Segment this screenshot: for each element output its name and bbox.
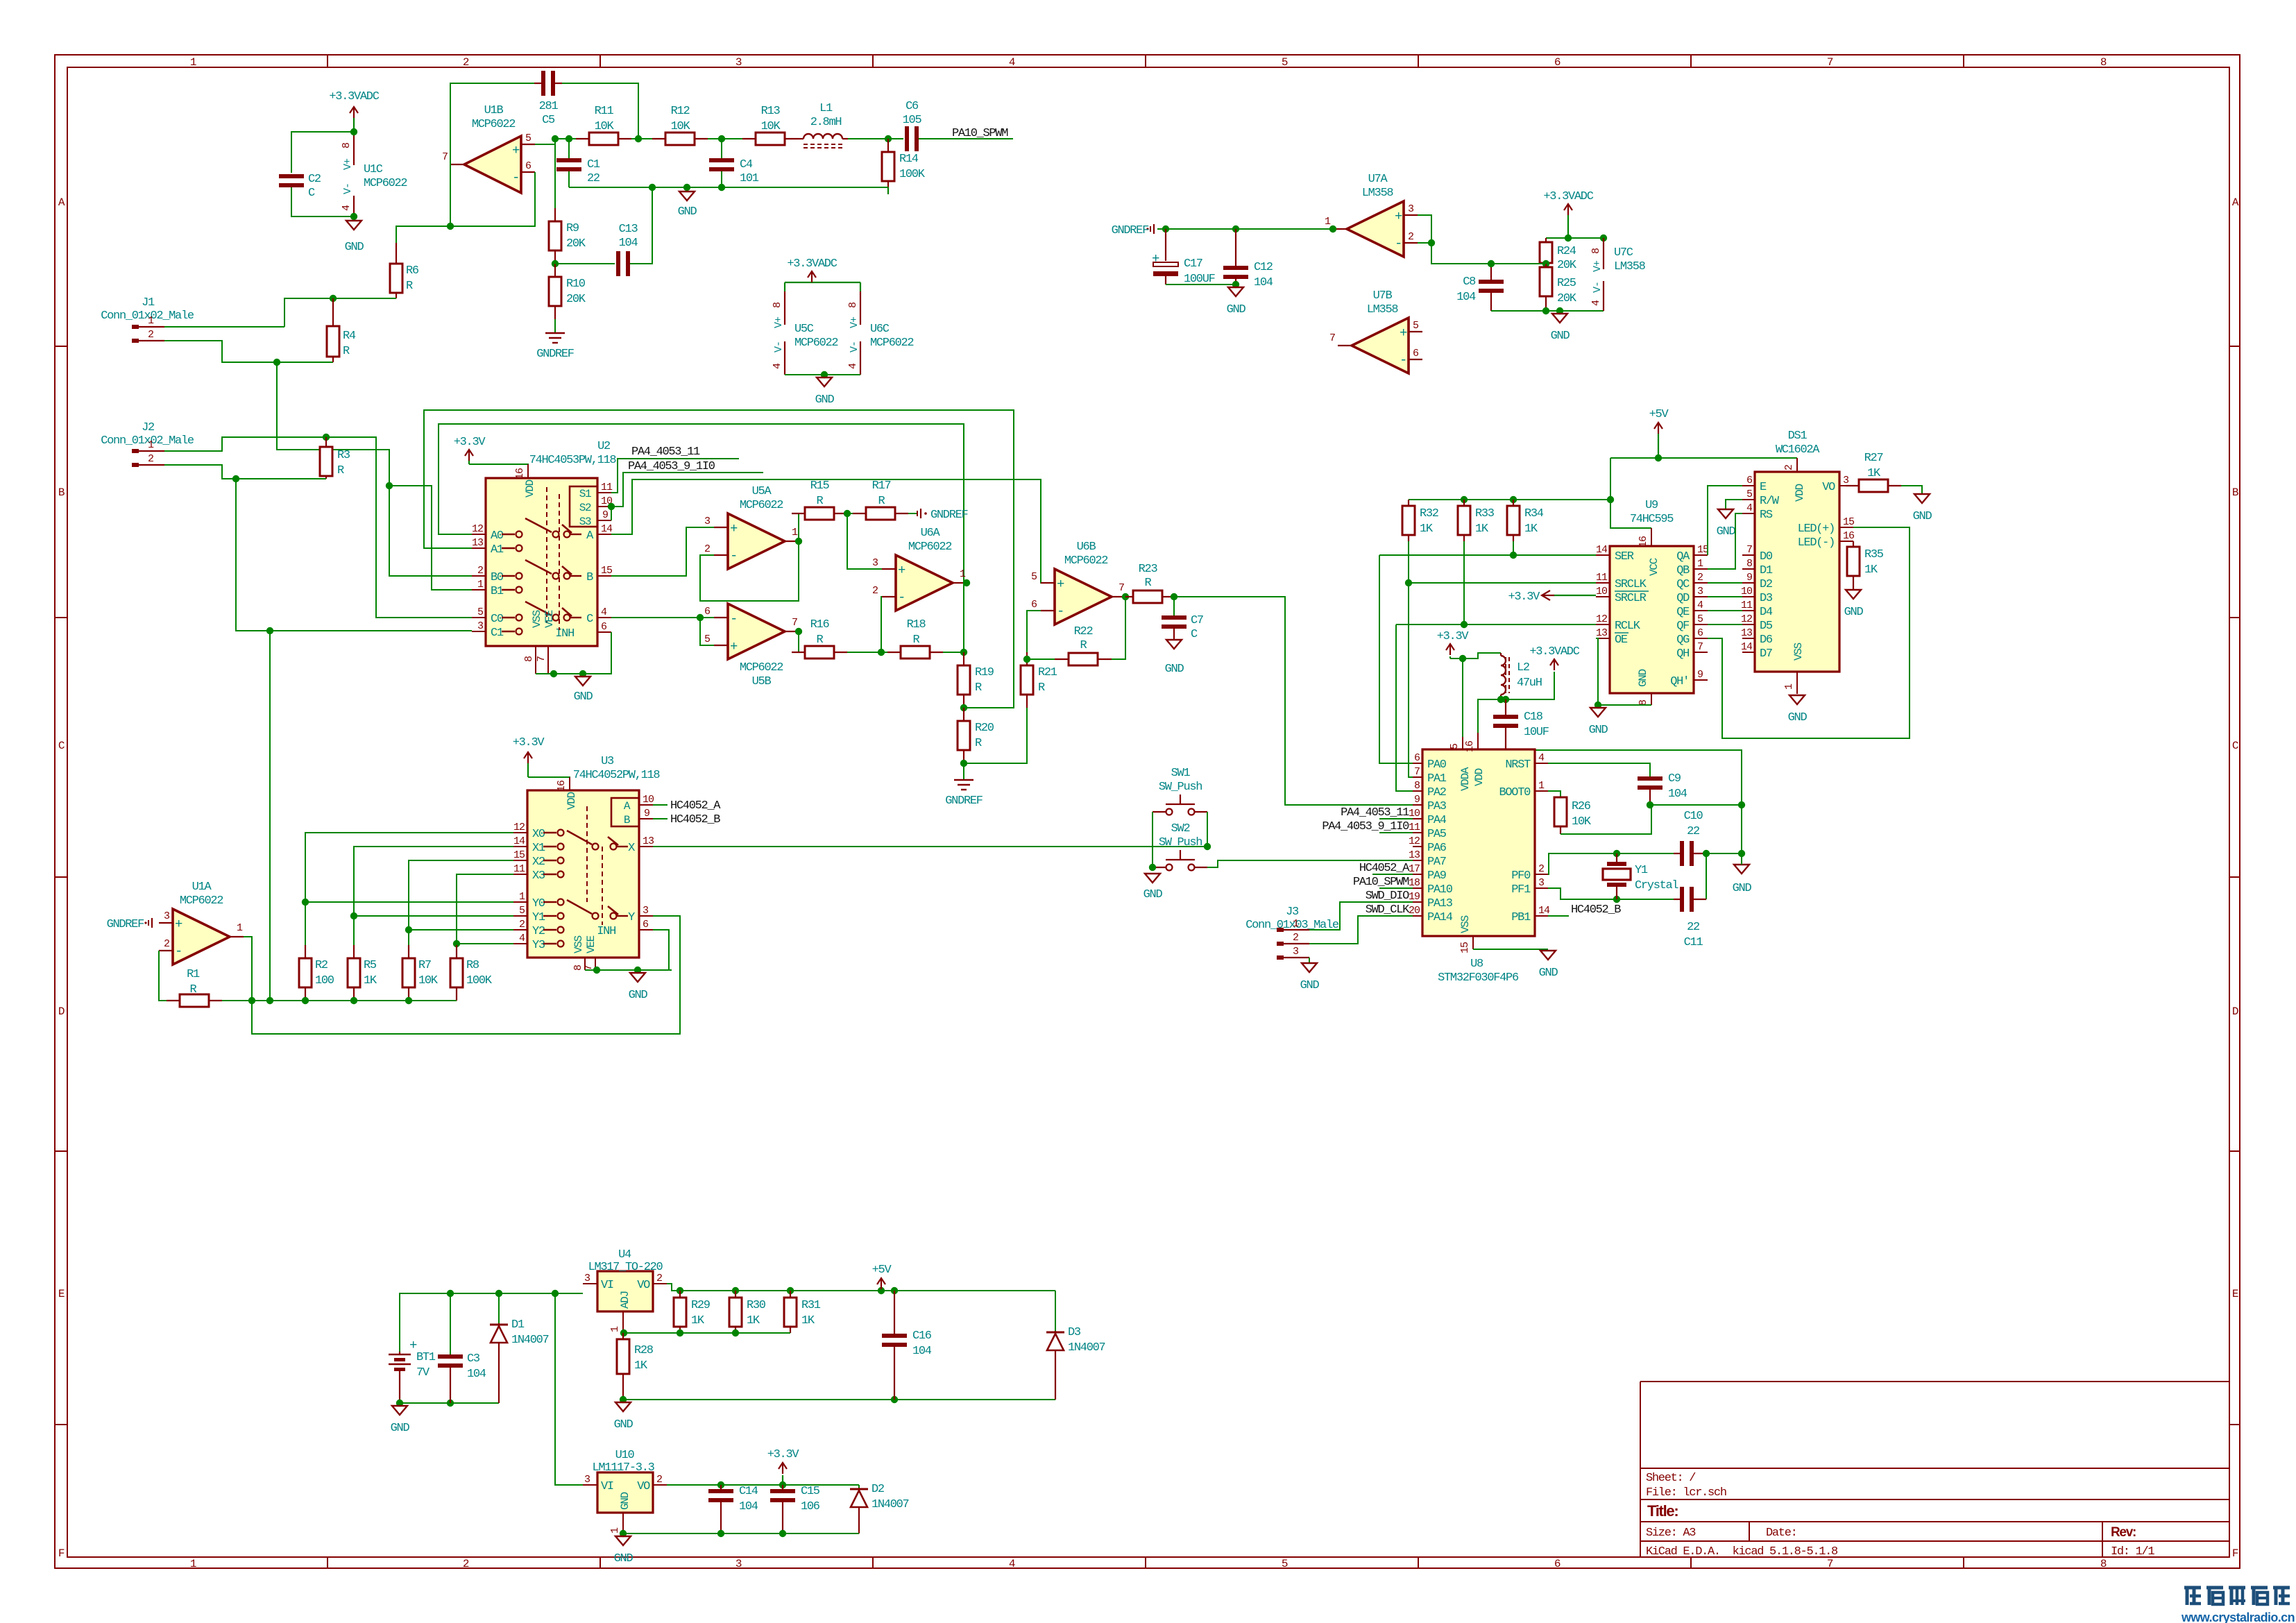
junction C18 top node xyxy=(1502,696,1509,703)
junction Y3 node xyxy=(453,940,460,947)
junction C15 gnd node xyxy=(779,1530,786,1537)
svg-text:1: 1 xyxy=(1697,558,1703,570)
svg-text:B: B xyxy=(2232,486,2238,499)
svg-text:R6: R6 xyxy=(406,264,419,278)
power symbol +3.3V (SRCLR) xyxy=(1508,590,1596,604)
junction R31 top xyxy=(787,1287,794,1294)
svg-text:3: 3 xyxy=(735,1558,742,1570)
ground GND at U10 xyxy=(614,1536,633,1565)
wire C17 C12 gnd xyxy=(1166,284,1236,285)
resistor R4 R xyxy=(327,298,356,362)
wire C1 bottom lead xyxy=(568,171,570,187)
svg-text:U3: U3 xyxy=(601,755,614,768)
junction U2 gnd tap xyxy=(579,670,586,677)
power symbol +3.3V (U2) xyxy=(454,436,486,461)
wire Y0 to pin xyxy=(305,901,513,903)
svg-text:22: 22 xyxy=(587,172,599,185)
svg-text:C: C xyxy=(2232,740,2238,752)
capacitor C17 100UF polarized xyxy=(1152,229,1215,286)
svg-text:2: 2 xyxy=(164,938,169,950)
wire SW2 to PA7 xyxy=(1207,860,1413,867)
svg-text:GND: GND xyxy=(1143,888,1163,901)
svg-text:MCP6022: MCP6022 xyxy=(794,337,837,350)
svg-text:GND: GND xyxy=(678,205,697,219)
junction U7C gnd node a xyxy=(1542,307,1549,314)
resistor R1 R xyxy=(167,968,222,1007)
svg-text:B: B xyxy=(58,486,65,499)
svg-text:20K: 20K xyxy=(1557,259,1577,272)
junction C8 top node xyxy=(1488,260,1495,267)
svg-text:Y3: Y3 xyxy=(532,939,545,952)
wire 3V3 gnd rail xyxy=(623,1533,859,1534)
junction rail node R5 xyxy=(350,997,357,1004)
svg-text:-: - xyxy=(730,611,737,627)
svg-text:1K: 1K xyxy=(747,1314,760,1327)
svg-text:Y1: Y1 xyxy=(532,911,545,924)
svg-text:R2: R2 xyxy=(315,959,328,972)
svg-text:V-: V- xyxy=(773,341,785,352)
svg-text:7: 7 xyxy=(1697,641,1703,653)
wire rail segment 4 xyxy=(848,138,888,139)
svg-text:A1: A1 xyxy=(491,543,504,556)
junction rail node x389 xyxy=(266,997,273,1004)
ground GND under DS1 xyxy=(1788,695,1808,724)
svg-text:PA14: PA14 xyxy=(1427,911,1453,924)
junction U6A output node xyxy=(963,579,970,586)
svg-text:J1: J1 xyxy=(142,296,155,309)
ground GND under U9 xyxy=(1589,708,1608,737)
junction R20 bottom node xyxy=(960,760,967,767)
svg-text:5: 5 xyxy=(477,606,484,618)
svg-text:GND: GND xyxy=(345,241,364,254)
svg-text:J3: J3 xyxy=(1286,906,1299,919)
svg-text:R25: R25 xyxy=(1557,277,1576,290)
svg-text:104: 104 xyxy=(739,1500,758,1513)
svg-text:R4: R4 xyxy=(343,330,356,343)
power symbol +5V (U4) xyxy=(872,1264,892,1289)
junction C15 top node xyxy=(779,1481,786,1488)
capacitor C15 106 xyxy=(770,1485,820,1533)
svg-text:PA13: PA13 xyxy=(1427,897,1453,910)
svg-text:2: 2 xyxy=(463,1558,469,1570)
ground GND at BT1 xyxy=(391,1406,410,1435)
svg-text:3: 3 xyxy=(1408,203,1414,215)
resistor R27 1K xyxy=(1846,452,1901,492)
svg-text:9: 9 xyxy=(602,509,608,521)
resistor R14 100K xyxy=(882,139,926,194)
svg-text:V+: V+ xyxy=(342,158,354,170)
svg-text:7: 7 xyxy=(1746,544,1752,556)
svg-text:+3.3VADC: +3.3VADC xyxy=(1529,645,1579,658)
svg-text:R: R xyxy=(1145,577,1152,590)
svg-text:L1: L1 xyxy=(819,102,833,115)
wire R22 right to U6B out xyxy=(1112,597,1125,659)
title block xyxy=(1640,1382,2229,1558)
svg-text:U7A: U7A xyxy=(1368,173,1388,186)
junction R rail join xyxy=(1607,496,1614,503)
junction C17 tap xyxy=(1162,226,1169,232)
junction +5V tap a xyxy=(878,1287,885,1294)
net label PA4_4053_9_1I0 (U8) xyxy=(1322,820,1409,833)
svg-text:E: E xyxy=(1760,481,1767,494)
svg-text:R12: R12 xyxy=(671,105,690,118)
svg-text:VI: VI xyxy=(601,1279,613,1292)
svg-text:D3: D3 xyxy=(1068,1326,1081,1339)
wire R16-R18 link xyxy=(847,652,901,653)
svg-text:C2: C2 xyxy=(308,173,321,186)
junction R4 bottom node xyxy=(273,359,280,366)
wire U2-C to U5B inputs xyxy=(611,617,714,618)
wire X3-Y3 column xyxy=(457,874,513,944)
wire U7A pin3 xyxy=(1418,215,1431,243)
svg-text:1: 1 xyxy=(190,1558,196,1570)
wire U1A- loop xyxy=(159,951,167,1001)
svg-text:R13: R13 xyxy=(761,105,781,118)
wire S1 to label xyxy=(611,459,739,493)
svg-text:4: 4 xyxy=(1538,752,1545,764)
svg-text:104: 104 xyxy=(619,237,638,250)
wire R21 top to U6B- xyxy=(1027,611,1041,652)
svg-text:E: E xyxy=(2232,1288,2238,1300)
svg-text:+3.3VADC: +3.3VADC xyxy=(329,90,379,103)
junction R16-R18 node xyxy=(878,649,885,656)
junction U2 VEE gnd xyxy=(550,670,557,677)
connector J1 Conn_01x02_Male xyxy=(101,296,194,343)
svg-text:U7C: U7C xyxy=(1614,246,1633,260)
wire J2 pin1 xyxy=(164,437,326,451)
svg-text:11: 11 xyxy=(513,863,525,875)
battery BT1 7V xyxy=(389,1338,436,1403)
svg-text:QB: QB xyxy=(1676,564,1690,577)
power arrow +3.3V (U8) xyxy=(1437,630,1470,655)
junction Y0 node xyxy=(302,899,309,906)
wire PB1 label xyxy=(1548,915,1569,917)
wire C10 to gnd node xyxy=(1706,853,1742,854)
junction SER R34 join xyxy=(1510,552,1517,559)
svg-text:R10: R10 xyxy=(566,278,586,291)
svg-text:QD: QD xyxy=(1676,592,1690,605)
svg-text:V+: V+ xyxy=(849,316,860,328)
wire Y3 to pin xyxy=(457,943,513,944)
svg-text:C14: C14 xyxy=(739,1485,758,1498)
svg-text:7: 7 xyxy=(1827,1558,1833,1570)
svg-text:QH: QH xyxy=(1676,647,1689,661)
svg-text:105: 105 xyxy=(903,114,922,127)
svg-text:5: 5 xyxy=(1697,613,1703,625)
svg-text:1: 1 xyxy=(1783,683,1795,690)
capacitor C1 22 xyxy=(556,158,600,185)
junction R3 bottom node xyxy=(232,475,239,482)
wire U10 input drop xyxy=(555,1293,583,1485)
svg-text:281: 281 xyxy=(539,100,559,113)
op-amp U5B MCP6022 xyxy=(704,604,799,688)
svg-text:R21: R21 xyxy=(1038,666,1057,679)
svg-text:10UF: 10UF xyxy=(1524,726,1549,739)
svg-text:3: 3 xyxy=(1697,586,1703,597)
svg-text:Y0: Y0 xyxy=(532,897,545,910)
svg-text:J2: J2 xyxy=(142,421,154,434)
svg-text:B0: B0 xyxy=(491,571,504,584)
resistor R23 R xyxy=(1125,563,1174,603)
svg-text:104: 104 xyxy=(467,1368,486,1381)
power symbol +3.3VADC (U7C) xyxy=(1543,190,1593,215)
wire X1-Y1 column xyxy=(354,847,513,916)
svg-text:LM358: LM358 xyxy=(1367,303,1399,316)
wire GNDREF to U7A xyxy=(1157,228,1332,230)
wire Y1 to pin xyxy=(354,915,513,917)
junction R28 gnd node xyxy=(620,1396,627,1403)
svg-text:D1: D1 xyxy=(1760,564,1773,577)
svg-text:6: 6 xyxy=(525,160,532,172)
resistor R17 R xyxy=(853,479,908,520)
svg-text:22: 22 xyxy=(1687,825,1699,838)
junction R33 top xyxy=(1461,496,1468,503)
junction C9 gnd node xyxy=(1647,801,1653,808)
op-amp U7A LM358 xyxy=(1325,173,1418,257)
svg-text:GND: GND xyxy=(1637,669,1649,687)
wire U1A output down xyxy=(244,937,252,1001)
wire B1 branch xyxy=(389,486,472,590)
svg-text:3: 3 xyxy=(1843,475,1849,486)
svg-text:MCP6022: MCP6022 xyxy=(364,177,407,190)
svg-text:BOOT0: BOOT0 xyxy=(1499,786,1531,799)
svg-text:R26: R26 xyxy=(1572,800,1591,813)
svg-text:4: 4 xyxy=(1009,56,1015,69)
wire input rail xyxy=(400,1293,583,1294)
wire C net to U5B+ xyxy=(700,618,714,645)
wire SER net xyxy=(1379,541,1596,763)
svg-text:Y2: Y2 xyxy=(532,925,545,938)
switch SW1 SW_Push xyxy=(1153,767,1207,815)
wire gnd rail left xyxy=(569,187,722,188)
junction C12 tap xyxy=(1232,226,1239,232)
ground GND under C7 xyxy=(1165,640,1184,676)
wire R23 node to PA3 xyxy=(1174,597,1413,805)
svg-text:1N4007: 1N4007 xyxy=(511,1334,549,1347)
svg-text:6: 6 xyxy=(643,919,649,931)
svg-text:U1C: U1C xyxy=(364,163,383,176)
svg-text:MCP6022: MCP6022 xyxy=(740,661,783,674)
resistor R24 20K xyxy=(1540,238,1577,272)
wire U3 Y down xyxy=(252,916,680,1034)
svg-text:R: R xyxy=(190,983,197,996)
power +3.3V at U2 xyxy=(468,459,470,464)
junction U7A fb node xyxy=(1428,239,1435,246)
inductor L1 2.8mH xyxy=(798,102,848,148)
svg-text:17: 17 xyxy=(1409,863,1420,875)
power symbol +3.3VADC (U1C) xyxy=(329,90,379,118)
svg-text:U1A: U1A xyxy=(192,881,212,894)
wire PA9 label stub xyxy=(1372,874,1413,875)
svg-text:1K: 1K xyxy=(634,1359,648,1373)
svg-text:2: 2 xyxy=(1293,932,1298,944)
svg-text:1: 1 xyxy=(519,891,525,903)
svg-text:QC: QC xyxy=(1676,578,1690,591)
op-amp U5C power unit MCP6022 xyxy=(772,291,837,375)
svg-text:X0: X0 xyxy=(532,828,545,841)
svg-text:12: 12 xyxy=(1596,613,1607,625)
wire +5V rail xyxy=(1610,457,1797,459)
svg-text:MCP6022: MCP6022 xyxy=(740,499,783,512)
svg-text:3: 3 xyxy=(584,1474,590,1486)
svg-text:16: 16 xyxy=(556,780,568,792)
ground GND at R/W xyxy=(1717,509,1736,538)
svg-text:R32: R32 xyxy=(1420,507,1438,520)
junction ADJ R29 xyxy=(677,1329,683,1336)
svg-text:2: 2 xyxy=(477,565,483,577)
svg-text:5: 5 xyxy=(1449,743,1461,749)
svg-text:PA4: PA4 xyxy=(1427,814,1447,827)
svg-text:+3.3V: +3.3V xyxy=(1437,630,1470,643)
svg-text:ADJ: ADJ xyxy=(619,1291,631,1309)
resistor R13 10K xyxy=(742,105,798,145)
power symbol +5V xyxy=(1649,408,1669,434)
svg-text:3: 3 xyxy=(1538,877,1545,889)
svg-text:-: - xyxy=(1057,604,1064,619)
svg-text:1: 1 xyxy=(960,568,966,580)
svg-text:+: + xyxy=(1395,209,1402,224)
GNDREF symbol (R20) xyxy=(945,780,983,808)
junction Y1 top node xyxy=(1613,850,1620,857)
svg-text:SW2: SW2 xyxy=(1171,822,1190,835)
resistor R3 R xyxy=(320,437,350,479)
svg-text:PA2: PA2 xyxy=(1427,786,1446,799)
svg-text:+: + xyxy=(730,639,738,654)
svg-text:D2: D2 xyxy=(871,1483,884,1496)
junction U7C pin8 node xyxy=(1600,235,1607,241)
svg-text:9: 9 xyxy=(1746,572,1752,584)
wire VDDA down xyxy=(1462,658,1463,749)
svg-text:PA4_4053_9_1I0: PA4_4053_9_1I0 xyxy=(628,460,715,473)
svg-text:6: 6 xyxy=(1697,627,1703,639)
wire PA4 label stub xyxy=(1379,818,1413,819)
junction SW gnd node xyxy=(1149,864,1156,871)
svg-text:QE: QE xyxy=(1676,606,1690,619)
junction R24-R25 node xyxy=(1542,260,1549,267)
svg-text:4: 4 xyxy=(1009,1558,1015,1570)
op-amp U6C power unit MCP6022 xyxy=(847,291,913,375)
svg-text:F: F xyxy=(2232,1547,2238,1560)
capacitor C5 (281) xyxy=(534,71,562,127)
svg-text:PA9: PA9 xyxy=(1427,869,1447,883)
resistor R22 R xyxy=(1055,625,1112,665)
svg-text:GND: GND xyxy=(1788,711,1808,724)
svg-text:R7: R7 xyxy=(418,959,431,972)
svg-text:20K: 20K xyxy=(1557,292,1577,305)
svg-text:-: - xyxy=(512,170,519,185)
svg-text:5: 5 xyxy=(1282,56,1288,69)
resistor R16 R xyxy=(792,618,847,658)
wire U1B pin6 loop xyxy=(450,172,535,226)
svg-text:8: 8 xyxy=(2100,56,2107,69)
svg-text:VO: VO xyxy=(637,1480,650,1493)
junction rail node R14 xyxy=(885,135,892,142)
svg-text:R9: R9 xyxy=(566,222,579,235)
svg-text:MCP6022: MCP6022 xyxy=(908,541,951,554)
connector J3 Conn_01x03_Male xyxy=(1245,906,1339,960)
net label HC4052_A (U8) xyxy=(1359,862,1410,875)
junction U5B output node xyxy=(795,628,802,635)
svg-text:1: 1 xyxy=(148,439,154,451)
junction U7C vplus tap xyxy=(1565,235,1572,241)
capacitor C6 105 xyxy=(903,100,922,151)
svg-text:+3.3V: +3.3V xyxy=(454,436,486,449)
junction S2 junction xyxy=(608,503,615,510)
svg-text:E: E xyxy=(58,1288,65,1300)
wire SRCLK net xyxy=(1409,541,1596,777)
wire J2 pin2 xyxy=(164,465,236,479)
svg-text:12: 12 xyxy=(472,523,483,535)
wire rail segment xyxy=(555,138,589,139)
svg-text:C0: C0 xyxy=(491,613,504,626)
junction U1C V+ node xyxy=(350,128,357,135)
wire Y2 to R7 xyxy=(408,930,409,945)
svg-text:R20: R20 xyxy=(975,722,994,735)
svg-text:GND: GND xyxy=(1733,882,1752,895)
svg-text:VDD: VDD xyxy=(1794,484,1806,502)
svg-text:1K: 1K xyxy=(1420,522,1434,536)
wire J3 pin2 to PA14 xyxy=(1309,916,1413,944)
svg-text:11: 11 xyxy=(1409,822,1420,833)
resistor R29 1K xyxy=(674,1291,711,1333)
IC DS1 WC1602A xyxy=(1741,430,1855,694)
svg-text:+5V: +5V xyxy=(1649,408,1669,421)
wire C18 gnd path xyxy=(1506,750,1742,853)
ground GND under U3 xyxy=(629,973,648,1002)
watermark crystalradio logo xyxy=(2181,1588,2295,1623)
wire rail segment 2 xyxy=(631,138,665,139)
wire R16R18 node to U6A- xyxy=(881,597,882,652)
wire long vertical to R rail xyxy=(269,631,271,1001)
svg-text:2: 2 xyxy=(1538,863,1544,875)
svg-text:D0: D0 xyxy=(1760,550,1773,563)
op-amp U5A MCP6022 xyxy=(704,485,799,569)
junction U5A output node xyxy=(795,538,802,545)
junction VDDA node xyxy=(1459,655,1466,662)
IC U9 74HC595 xyxy=(1596,499,1709,706)
wire X0-Y0 column xyxy=(305,833,513,902)
wire gnd lead xyxy=(1741,853,1742,865)
svg-text:12: 12 xyxy=(1741,613,1752,625)
svg-text:SRCLR: SRCLR xyxy=(1615,592,1647,605)
junction rail node B xyxy=(566,135,572,142)
svg-text:+: + xyxy=(175,917,182,932)
svg-text:R14: R14 xyxy=(899,153,919,166)
capacitor C3 104 xyxy=(438,1352,486,1403)
svg-text:1N4007: 1N4007 xyxy=(1068,1341,1105,1354)
wire R14 bottom to gnd rail xyxy=(722,187,888,194)
svg-text:C15: C15 xyxy=(801,1485,820,1498)
svg-text:4: 4 xyxy=(519,933,525,944)
svg-text:GNDREF: GNDREF xyxy=(536,348,574,361)
svg-text:SER: SER xyxy=(1615,550,1634,563)
wire R22 left to R21 node xyxy=(1027,658,1055,660)
svg-text:20: 20 xyxy=(1409,905,1420,917)
wire U2-A to U6B+ xyxy=(611,479,1055,583)
resistor R18 R xyxy=(887,618,943,658)
ground GND at R35 xyxy=(1844,590,1864,619)
svg-text:X2: X2 xyxy=(532,856,545,869)
svg-text:U5B: U5B xyxy=(752,675,772,688)
svg-text:R5: R5 xyxy=(364,959,377,972)
wire D3 top xyxy=(1055,1291,1056,1331)
wire Y1bot to C11 xyxy=(1617,899,1674,900)
svg-text:6: 6 xyxy=(1554,56,1561,69)
wire R15-R17 xyxy=(847,513,853,514)
wire C10-C11 tie xyxy=(1706,853,1707,899)
svg-text:5: 5 xyxy=(519,905,525,917)
wire U3 VDD wire xyxy=(528,777,570,790)
